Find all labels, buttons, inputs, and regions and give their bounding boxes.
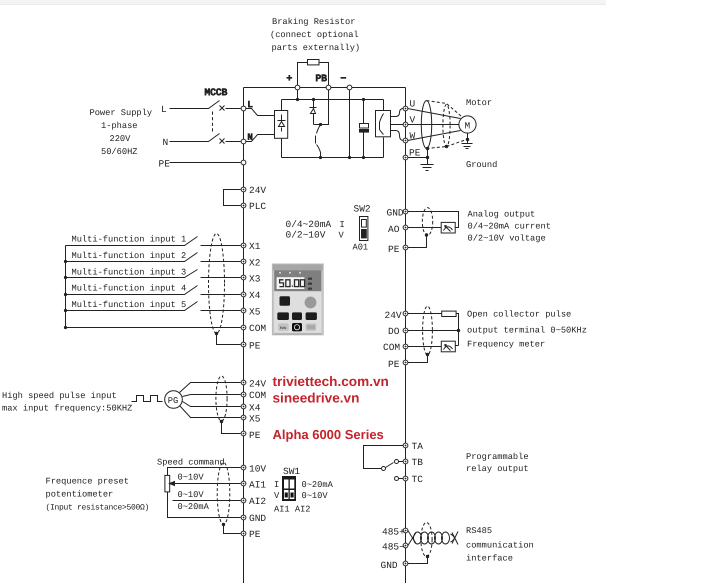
wire TA loop [364,446,404,469]
svg-text:U: U [410,99,416,110]
node - terminal [347,85,352,90]
node PE terminal PG [241,431,246,436]
node 24V terminal [241,187,246,192]
wire N jog into rectifier [246,135,275,142]
shield analog cable dashed ellipse [422,208,432,236]
node X2 terminal [241,259,246,264]
svg-text:interface: interface [466,554,513,564]
svg-text:10V: 10V [249,464,266,475]
wire PG to X4 [183,402,241,407]
svg-text:Alpha 6000 Series: Alpha 6000 Series [273,427,384,442]
node X5 terminal PG [241,415,246,420]
squarewave glyph [132,396,163,402]
svg-text:triviettech.com.vn: triviettech.com.vn [273,374,389,389]
svg-text:TB: TB [412,457,424,468]
wire AO to meter left [408,227,442,229]
svg-text:485−: 485− [382,542,405,553]
diode braking chopper diode [312,98,315,101]
svg-text:AI2: AI2 [249,496,266,507]
node COM terminal pulse [403,344,408,349]
wire left terminal bus [243,88,245,583]
wire pot wiper to AI1 [170,482,241,486]
wire dashed shield to motor ground [447,140,467,147]
svg-text:COM: COM [249,390,266,401]
svg-text:Frequence preset: Frequence preset [46,477,129,487]
svg-text:(connect optional: (connect optional [270,30,359,40]
svg-text:−: − [341,73,347,84]
svg-text:Programmable: Programmable [466,452,529,462]
node X4 terminal PG [241,404,246,409]
svg-text:0~20mA: 0~20mA [178,502,210,512]
svg-text:COM: COM [249,323,266,334]
svg-text:Ground: Ground [466,160,497,170]
wire input3 + switch [66,270,241,278]
wire inner bottom DC rail [282,157,384,159]
wire PG to COM [183,395,241,397]
svg-text:Multi-function input 2: Multi-function input 2 [72,251,187,261]
svg-text:50/60HZ: 50/60HZ [101,147,138,157]
svg-text:V: V [274,491,280,501]
node + terminal [295,85,300,90]
wire 24V-PLC bracket [224,190,241,206]
svg-text:potentiometer: potentiometer [46,490,114,500]
wire pulse shield to PE [408,355,428,363]
wire AI2 line [173,500,241,502]
node PE terminal top [241,160,246,165]
node L terminal [241,106,246,111]
node X4 terminal [241,292,246,297]
svg-text:RUN: RUN [280,326,286,331]
wire PE input [170,162,241,164]
shield PG cable dashed ellipse [216,376,227,421]
svg-text:ENTER: ENTER [306,315,317,320]
svg-text:+: + [287,73,293,84]
node TC terminal [403,476,408,481]
shield pulse cable dashed ellipse [423,306,433,355]
inverter output block U1 [383,100,385,111]
node X1 terminal [241,243,246,248]
svg-text:JOG: JOG [294,315,300,320]
svg-text:0/2~10V: 0/2~10V [286,230,326,241]
shield 485 dashed ellipse [421,523,432,557]
node PE terminal speed [241,531,246,536]
svg-text:Braking Resistor: Braking Resistor [272,17,355,27]
wire COM line [66,327,241,329]
node W terminal [403,138,408,143]
svg-text:PE: PE [388,244,400,255]
wire analog shield to PE [408,235,427,248]
capacitor DC bus capacitor [362,98,365,101]
node 10V terminal [241,465,246,470]
svg-text:24V: 24V [249,379,266,390]
svg-text:GND: GND [387,208,404,219]
node N terminal [241,139,246,144]
node GND terminal 485 [403,561,408,566]
svg-text:(Input resistance>500Ω): (Input resistance>500Ω) [46,504,150,513]
wire 485 shield to GND [408,557,428,564]
svg-text:communication: communication [466,541,534,551]
node COM terminal PG [241,392,246,397]
svg-text:sineedrive.vn: sineedrive.vn [273,391,360,406]
wire DO line [408,330,459,332]
wire PG to X5 [180,406,241,418]
svg-text:X1: X1 [249,241,261,252]
node GND terminal speed [241,515,246,520]
svg-text:output terminal 0~50KHz: output terminal 0~50KHz [467,325,587,335]
node V terminal [403,122,408,127]
svg-text:PG: PG [168,396,178,406]
wire L jog into rectifier [246,109,275,116]
svg-text:24V: 24V [385,310,402,321]
svg-text:Frequency meter: Frequency meter [467,340,545,350]
keypad operation panel [272,264,324,336]
svg-text:220V: 220V [110,134,132,144]
svg-text:PE: PE [249,529,261,540]
svg-text:High speed pulse input: High speed pulse input [2,391,117,401]
svg-text:0~20mA: 0~20mA [302,480,334,490]
svg-text:relay output: relay output [466,464,529,474]
wire 24V to resistor [408,313,442,315]
node PE terminal inputs [241,342,246,347]
wire resistor to DO junction [457,314,459,346]
node 485- terminal [403,543,408,548]
rectifier U0 [281,100,283,111]
shield input cable dashed ellipse [209,234,225,334]
svg-text:X4: X4 [249,403,261,414]
node PE terminal analog [403,245,408,250]
svg-text:N: N [163,137,169,148]
wire PE to ground [408,149,428,165]
wire input4 + switch [66,286,241,295]
node 24V terminal PG [241,380,246,385]
node 485+ terminal [403,528,408,533]
resistor braking resistor loop [298,63,308,88]
svg-text:1-phase: 1-phase [101,121,138,131]
svg-text:parts externally): parts externally) [272,43,361,53]
svg-text:I: I [340,220,345,230]
svg-text:485+: 485+ [382,526,405,537]
node PLC terminal [241,203,246,208]
svg-text:MCCB: MCCB [205,87,228,98]
svg-text:I: I [274,480,279,490]
wire PG to 24V [180,383,241,393]
twisted pair [408,531,416,546]
svg-text:PE: PE [249,430,261,441]
svg-text:X5: X5 [249,306,261,317]
svg-text:PLC: PLC [249,201,266,212]
svg-text:X5: X5 [249,414,261,425]
node GND terminal analog [403,209,408,214]
potentiometer R-pot [165,475,170,492]
wire main top line [244,87,406,89]
svg-text:PE: PE [159,159,171,170]
svg-text:X3: X3 [249,274,261,285]
transistor braking chopper IGBT [319,123,322,126]
ground PE ground [421,165,434,171]
wire + vertical drop [297,90,299,100]
svg-text:Open collector pulse: Open collector pulse [467,310,571,320]
svg-text:PE: PE [409,148,421,159]
node AO terminal [403,225,408,230]
node PB terminal [326,85,331,90]
svg-text:GND: GND [249,513,266,524]
node TA terminal [403,443,408,448]
wire GND to meter right [408,212,459,228]
svg-text:PB: PB [316,73,328,84]
svg-text:TA: TA [412,441,424,452]
svg-text:24V: 24V [249,185,266,196]
wire shield to PE speed [224,525,241,534]
svg-text:AI1: AI1 [249,480,266,491]
shield analog input dashed ellipse [217,463,230,525]
wire PB vertical drop [314,90,329,125]
svg-text:Analog output: Analog output [468,210,536,220]
svg-text:0~10V: 0~10V [178,490,205,500]
wire inputs common vertical [65,246,67,328]
svg-text:PE: PE [249,341,261,352]
node X5 terminal [241,308,246,313]
node 24V terminal pulse [403,311,408,316]
svg-text:X2: X2 [249,257,261,268]
svg-text:COM: COM [383,342,400,353]
wire COM to meter [408,346,442,348]
svg-text:>>: >> [281,315,287,320]
wire U to motor [408,109,461,119]
svg-text:SW1: SW1 [283,466,300,477]
svg-text:0/2~10V voltage: 0/2~10V voltage [468,234,546,244]
node DO terminal [403,328,408,333]
svg-text:0~10V: 0~10V [302,491,329,501]
wire inner top DC rail [282,99,384,101]
node AI1 terminal [241,481,246,486]
wire inverter lead U [391,109,404,117]
wire input2 + switch [66,253,241,262]
PG encoder [165,391,183,409]
svg-text:Speed command: Speed command [157,458,225,468]
svg-text:V: V [339,231,345,241]
node AI2 terminal [241,498,246,503]
wire dashed shield tube bottom [427,147,447,149]
svg-text:SW2: SW2 [354,204,371,215]
node PE terminal pulse [403,360,408,365]
node shield ellipse bottom dot [426,147,429,150]
relay TC contact [395,477,399,481]
node TB terminal [403,459,408,464]
svg-text:0~10V: 0~10V [178,473,205,483]
svg-text:Multi-function input 4: Multi-function input 4 [72,284,187,294]
svg-text:max input frequency:50KHZ: max input frequency:50KHZ [2,404,132,414]
motor M1 [459,116,476,133]
svg-text:Power Supply: Power Supply [90,108,153,118]
wire PG shield to PE [222,422,241,434]
shield motor cable dashed ellipse [443,105,450,147]
wire shield to PE [217,334,241,345]
wire pot top to 10V [168,468,241,476]
node X3 terminal [241,275,246,280]
wire input1 + switch [66,237,241,246]
wire inverter lead W [391,131,404,141]
wire V to motor [408,124,460,126]
wire right terminal bus [405,88,407,583]
svg-text:Multi-function input 5: Multi-function input 5 [72,300,187,310]
svg-text:Multi-function input 3: Multi-function input 3 [72,267,187,277]
top gray band artifact [0,0,606,5]
svg-text:L: L [161,104,167,115]
svg-text:0/4~20mA current: 0/4~20mA current [468,222,551,232]
node U terminal [403,106,408,111]
wire dashed shield tube top [427,101,462,117]
wire inverter lead V [391,124,404,126]
meter analog output meter [441,222,455,233]
relay TB contact [395,460,399,464]
wire W to motor [408,131,461,141]
svg-text:DO: DO [388,326,400,337]
svg-text:AI1 AI2: AI1 AI2 [274,505,311,515]
resistor pull-up [442,311,456,316]
svg-text:A01: A01 [353,243,369,253]
wire input5 + switch [66,302,241,311]
svg-text:PRG: PRG [280,301,286,306]
shield motor cable ellipse [421,101,431,149]
svg-text:0/4~20mA: 0/4~20mA [286,219,332,230]
svg-text:RS485: RS485 [466,526,492,536]
relay pivot + arm [382,467,386,471]
svg-text:Multi-function input 1: Multi-function input 1 [72,235,187,245]
wire pot bottom to GND [168,492,241,518]
svg-text:X4: X4 [249,290,261,301]
node COM terminal [241,325,246,330]
svg-text:Motor: Motor [466,98,492,108]
svg-text:PE: PE [388,359,400,370]
svg-text:M: M [465,121,471,132]
ground motor ground [466,138,469,141]
wire - vertical drop [349,90,351,158]
node PE terminal motor [403,155,408,160]
svg-text:GND: GND [381,560,398,571]
svg-text:V: V [410,115,416,126]
svg-text:TC: TC [412,474,424,485]
svg-text:AO: AO [388,224,400,235]
meter frequency meter [441,341,455,352]
